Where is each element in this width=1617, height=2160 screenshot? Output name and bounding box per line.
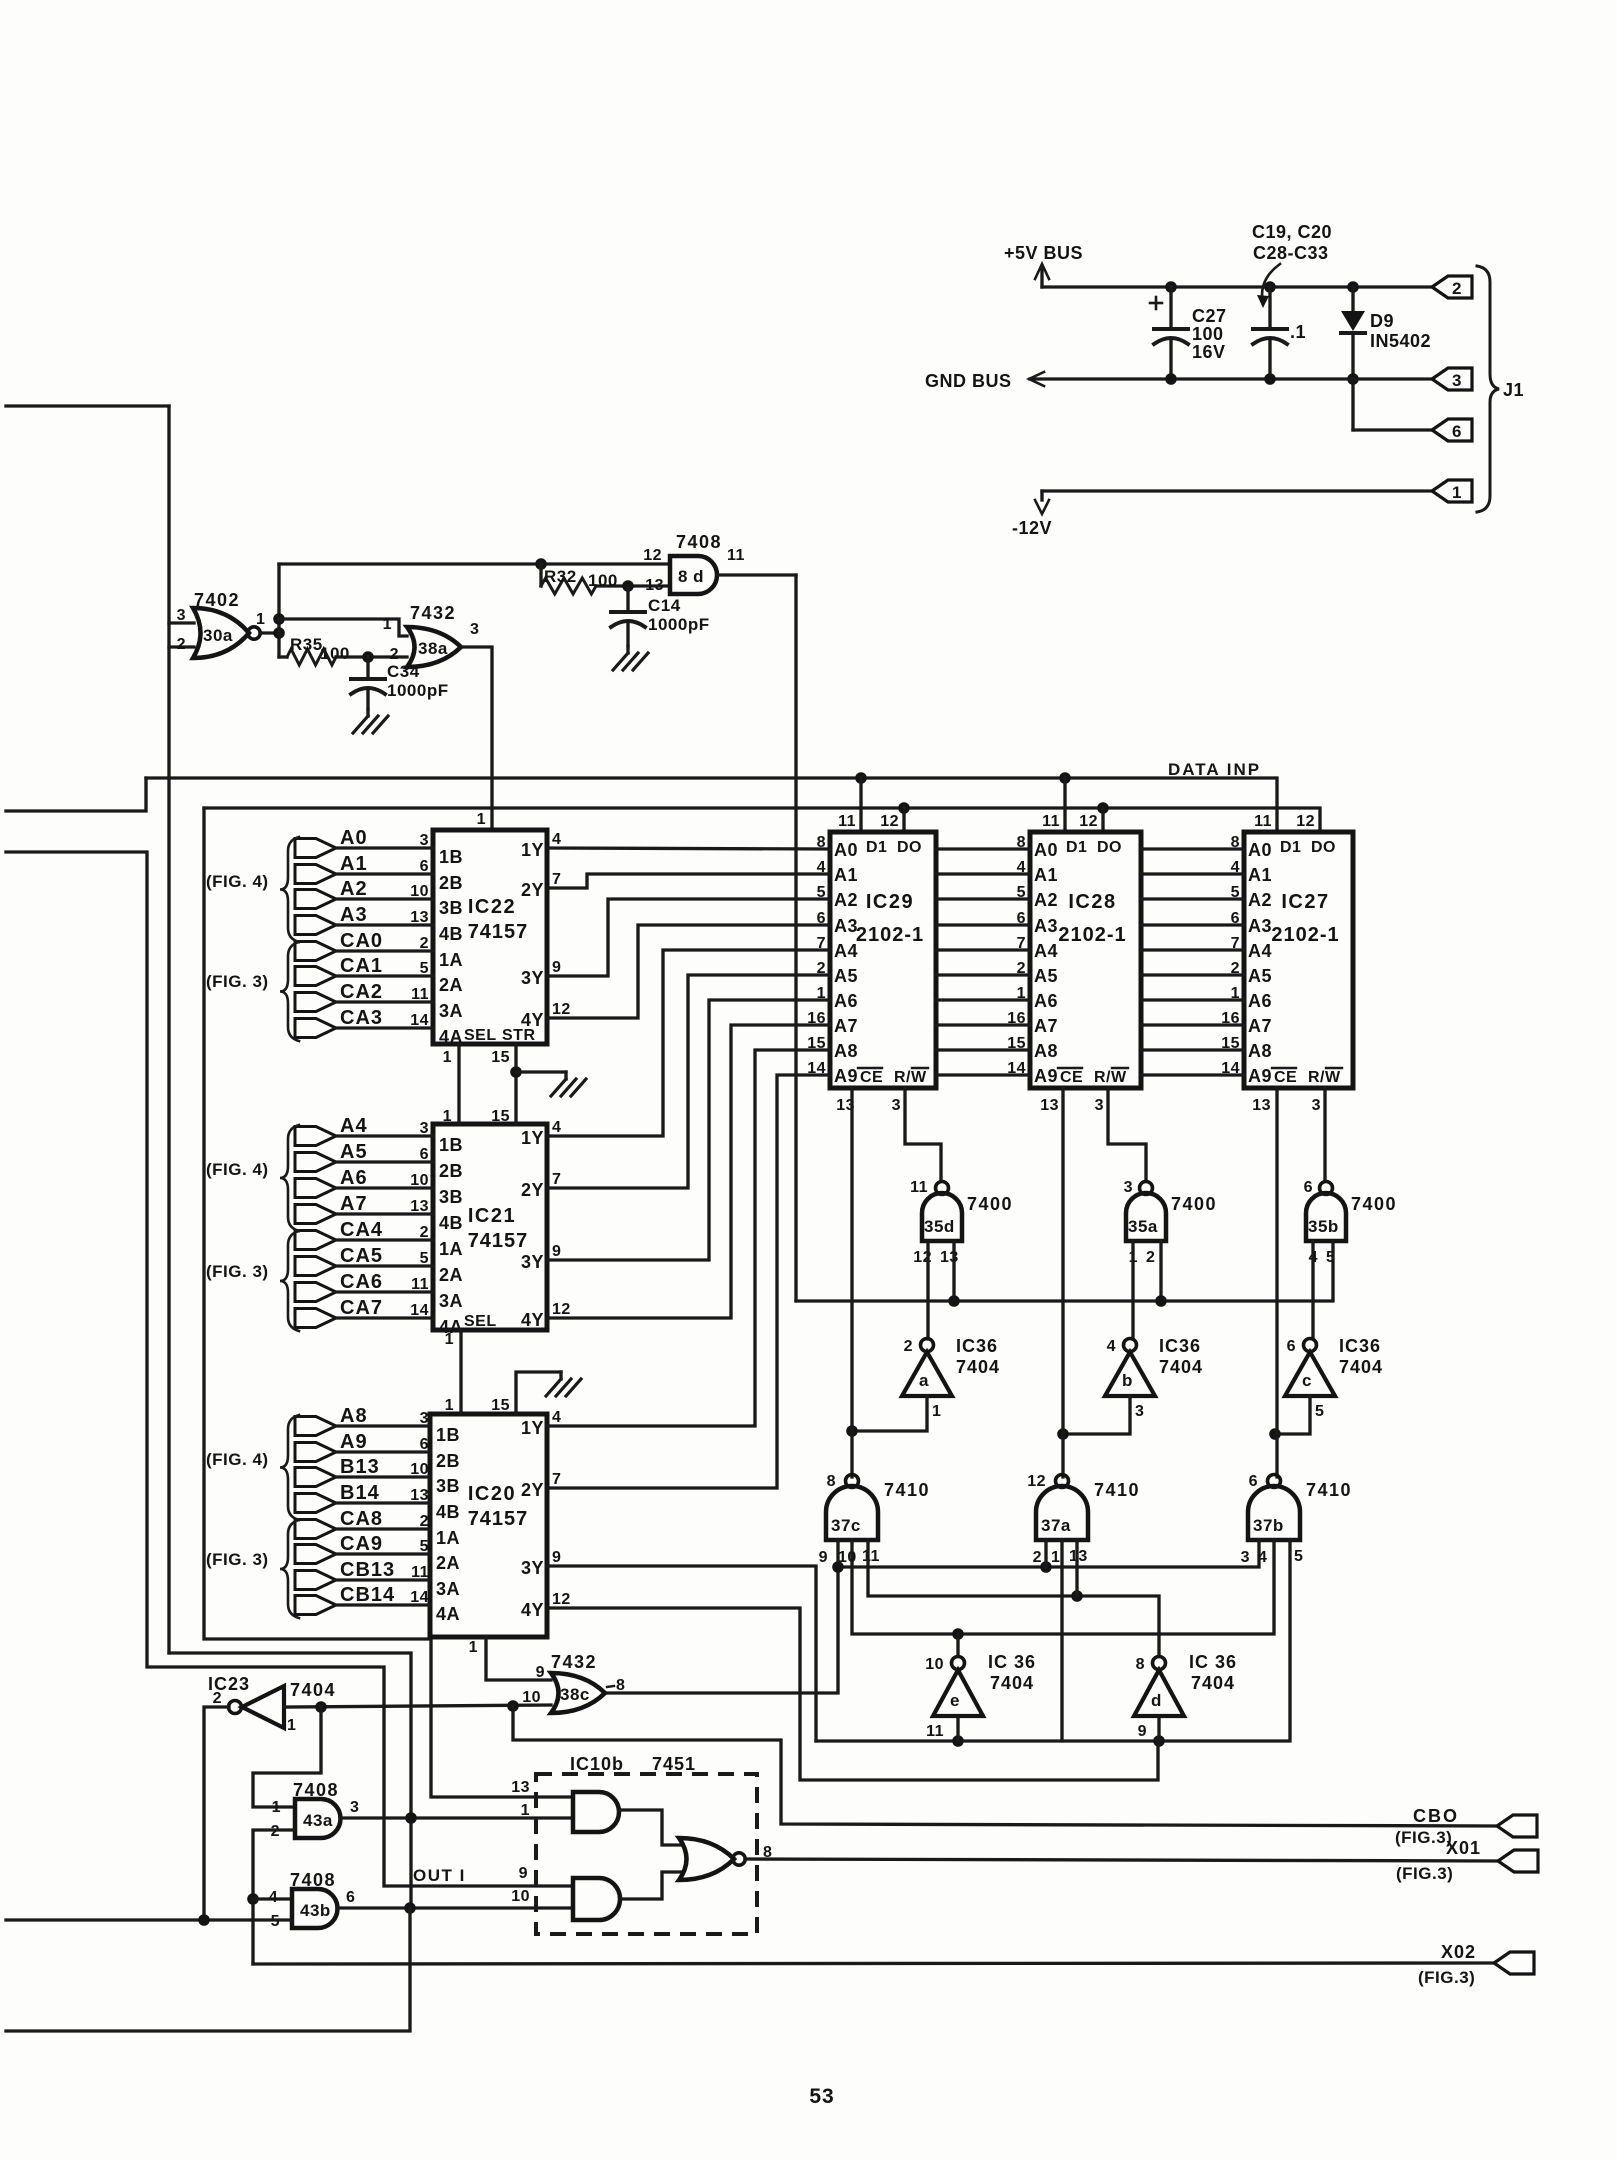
node a input / CE29: [846, 1425, 858, 1437]
svg-text:7: 7: [552, 1471, 561, 1488]
svg-text:13: 13: [1252, 1097, 1271, 1114]
wire input A2 to IC22.3B: [295, 890, 336, 909]
node e input: [952, 1735, 964, 1747]
svg-text:2Y: 2Y: [521, 880, 544, 900]
svg-text:A6: A6: [834, 991, 858, 1011]
gate 7400 35a: [1126, 1193, 1166, 1241]
svg-text:IC 36: IC 36: [1189, 1652, 1237, 1672]
svg-text:7408: 7408: [293, 1780, 339, 1800]
svg-text:C28-C33: C28-C33: [1253, 243, 1329, 263]
svg-text:A7: A7: [834, 1016, 858, 1036]
wire 43b output: [337, 1906, 573, 1909]
ground C34: [366, 709, 369, 716]
wire vertical x169 down to y1653: [167, 406, 170, 1653]
svg-text:12: 12: [643, 547, 662, 564]
gate 7408 43b: [292, 1889, 338, 1928]
svg-text:11: 11: [838, 813, 856, 830]
wire input A7 to IC21.4B: [295, 1205, 336, 1224]
wire +5V bus: [1042, 285, 1432, 288]
inverter IC36 b 7404: [1105, 1352, 1155, 1396]
svg-text:A5: A5: [1248, 966, 1272, 986]
svg-text:CA0: CA0: [340, 930, 383, 952]
node 43b.4: [247, 1893, 259, 1905]
wire 7402 input 3 stub: [169, 621, 194, 624]
op 7432 OR gate 38a: [407, 627, 461, 667]
svg-text:.1: .1: [1290, 322, 1306, 342]
svg-text:6: 6: [420, 858, 429, 875]
svg-text:e: e: [950, 1691, 960, 1710]
svg-text:53: 53: [809, 2085, 834, 2108]
wire IC20.4Y line to L4: [547, 1608, 1158, 1780]
svg-text:30a: 30a: [203, 626, 233, 645]
node C14 tap: [622, 580, 634, 592]
node e output: [952, 1628, 964, 1640]
ground IC22 STR: [516, 1070, 566, 1073]
wire IC28 CE to 37a out: [1061, 1088, 1064, 1477]
svg-text:IC36: IC36: [1159, 1336, 1201, 1356]
wire 37a.1 stub long: [1060, 1540, 1063, 1741]
svg-text:CA4: CA4: [340, 1219, 383, 1241]
svg-text:3Y: 3Y: [521, 1558, 544, 1578]
svg-text:12: 12: [880, 813, 899, 830]
gate 7410 37a: [1036, 1486, 1088, 1540]
svg-text:CBO: CBO: [1413, 1806, 1459, 1826]
svg-text:1: 1: [443, 1108, 452, 1125]
svg-text:2: 2: [213, 1690, 222, 1707]
svg-text:7410: 7410: [1094, 1480, 1140, 1500]
wire 35d.12 to inverter a out: [926, 1241, 929, 1339]
wire e output stub: [956, 1634, 959, 1656]
svg-text:A6: A6: [1034, 991, 1058, 1011]
svg-text:R35: R35: [290, 635, 323, 654]
svg-text:12: 12: [552, 1301, 571, 1318]
svg-text:4: 4: [552, 1409, 561, 1426]
svg-text:2102-1: 2102-1: [1271, 924, 1339, 946]
inverter IC36 a 7404: [902, 1352, 952, 1396]
wire IC21 SEL to IC20 pin1: [459, 1330, 462, 1414]
svg-text:A4: A4: [1248, 941, 1272, 961]
RAM IC28 2102-1: [1030, 832, 1141, 1088]
connector J1 pin 3: [1432, 368, 1472, 390]
wire to 38a input 1: [279, 619, 407, 636]
svg-text:11: 11: [926, 1723, 944, 1740]
wire input A6 to IC21.3B: [295, 1179, 336, 1198]
svg-text:DO: DO: [897, 839, 922, 856]
svg-text:2A: 2A: [436, 1553, 460, 1573]
node DO IC28: [1097, 802, 1109, 814]
svg-text:100: 100: [320, 644, 350, 663]
node GND/C19: [1264, 373, 1276, 385]
wire input CA4 to IC21.1A: [295, 1231, 336, 1250]
brace FIG.4 IC20: [280, 1415, 299, 1520]
svg-text:6: 6: [1287, 1338, 1296, 1355]
svg-text:C27: C27: [1192, 306, 1227, 326]
svg-text:A4: A4: [834, 941, 858, 961]
svg-text:(FIG. 4): (FIG. 4): [206, 1160, 269, 1179]
connector J1 pin 6: [1432, 419, 1472, 441]
svg-text:X01: X01: [1446, 1838, 1481, 1858]
capacitor C14 1000pF: [626, 586, 629, 612]
svg-text:5: 5: [1315, 1403, 1324, 1420]
svg-text:D9: D9: [1370, 311, 1394, 331]
wire IC22.2Y riser to RAM row: [547, 874, 830, 888]
svg-text:A9: A9: [1034, 1066, 1058, 1086]
svg-text:CA5: CA5: [340, 1245, 383, 1267]
svg-text:2B: 2B: [439, 873, 463, 893]
svg-text:9: 9: [552, 959, 561, 976]
svg-text:14: 14: [410, 1012, 429, 1029]
resistor R35 100: [279, 655, 287, 658]
op 7408 AND gate 8d: [670, 556, 717, 594]
node IC23a out join: [198, 1914, 210, 1926]
svg-text:37a: 37a: [1041, 1516, 1071, 1535]
wire AND2 out to NOR: [621, 1872, 683, 1899]
svg-text:9: 9: [536, 1664, 545, 1681]
inverter IC36 c 7404: [1285, 1352, 1335, 1396]
node 43b out: [404, 1902, 416, 1914]
inverter IC36 d 7404: [1134, 1670, 1184, 1716]
wire X01 line: [745, 1859, 1498, 1861]
svg-text:5: 5: [420, 1538, 429, 1555]
svg-text:14: 14: [410, 1302, 429, 1319]
arrow +5V up: [1035, 264, 1049, 279]
svg-text:100: 100: [588, 571, 618, 590]
wire e input stub: [956, 1716, 959, 1741]
svg-text:10: 10: [410, 1461, 429, 1478]
wire J1-6 to D9: [1353, 428, 1432, 431]
svg-text:A5: A5: [834, 966, 858, 986]
wire 35d.13 stub: [952, 1241, 955, 1301]
svg-text:1: 1: [445, 1397, 454, 1414]
svg-text:3: 3: [1452, 371, 1462, 390]
svg-text:DO: DO: [1097, 839, 1122, 856]
svg-text:2: 2: [1452, 279, 1462, 298]
wire input A8 to IC20.1B: [295, 1417, 336, 1436]
svg-text:1000pF: 1000pF: [648, 615, 710, 634]
RAM IC27 2102-1: [1244, 832, 1353, 1088]
svg-text:A1: A1: [1248, 865, 1272, 885]
wire 38a output to IC22 pin1: [461, 647, 492, 830]
svg-text:1: 1: [383, 616, 392, 633]
svg-text:37b: 37b: [1253, 1516, 1284, 1535]
svg-text:R/W: R/W: [894, 1069, 927, 1086]
svg-text:(FIG. 4): (FIG. 4): [206, 1450, 269, 1469]
mux IC22 74157: [433, 830, 547, 1044]
svg-text:a: a: [919, 1371, 929, 1390]
svg-text:38a: 38a: [418, 639, 448, 658]
gate AND IC10b lower: [573, 1878, 620, 1920]
svg-text:11: 11: [411, 986, 429, 1003]
svg-text:+5V BUS: +5V BUS: [1004, 243, 1083, 263]
svg-text:9: 9: [519, 1865, 528, 1882]
svg-text:1A: 1A: [439, 950, 463, 970]
svg-text:13: 13: [940, 1249, 959, 1266]
svg-text:11: 11: [411, 1276, 429, 1293]
svg-text:5: 5: [1294, 1548, 1303, 1565]
gate 7410 37c: [826, 1486, 878, 1540]
node d input: [1153, 1735, 1165, 1747]
wire 43b out down to page left: [6, 1908, 410, 2031]
svg-text:R/W: R/W: [1094, 1069, 1127, 1086]
svg-text:A6: A6: [340, 1167, 368, 1189]
wire input CA1 to IC22.2A: [295, 967, 336, 986]
wire AND1 out to NOR: [619, 1810, 683, 1845]
wire IC22 STR to IC21 pin15: [514, 1044, 517, 1124]
svg-text:13: 13: [410, 1487, 429, 1504]
svg-text:(FIG. 4): (FIG. 4): [206, 872, 269, 891]
svg-text:2102-1: 2102-1: [1058, 924, 1126, 946]
svg-text:3: 3: [420, 832, 429, 849]
mux IC20 74157: [430, 1414, 547, 1637]
svg-text:IC20: IC20: [468, 1483, 516, 1505]
svg-text:B14: B14: [340, 1482, 380, 1504]
connector J1 pin 1: [1432, 480, 1472, 502]
svg-text:IN5402: IN5402: [1370, 331, 1431, 351]
svg-text:2: 2: [420, 1224, 429, 1241]
svg-text:3A: 3A: [436, 1579, 460, 1599]
svg-text:6: 6: [420, 1436, 429, 1453]
svg-text:1: 1: [932, 1403, 941, 1420]
svg-text:1B: 1B: [439, 1135, 463, 1155]
svg-text:7404: 7404: [990, 1673, 1034, 1693]
svg-text:A3: A3: [1034, 916, 1058, 936]
wire top-left input: [6, 404, 169, 407]
svg-text:A0: A0: [340, 827, 368, 849]
svg-text:d: d: [1151, 1691, 1162, 1710]
svg-text:DO: DO: [1311, 839, 1336, 856]
svg-text:A0: A0: [1034, 840, 1058, 860]
svg-text:13: 13: [410, 909, 429, 926]
svg-text:1: 1: [521, 1802, 530, 1819]
svg-text:IC21: IC21: [468, 1205, 516, 1227]
svg-text:A3: A3: [1248, 916, 1272, 936]
svg-text:1: 1: [287, 1717, 296, 1734]
node STR ground tap: [510, 1066, 522, 1078]
wire input B13 to IC20.3B: [295, 1468, 336, 1487]
svg-text:A5: A5: [340, 1141, 368, 1163]
svg-text:(FIG. 3): (FIG. 3): [206, 1550, 269, 1569]
svg-text:38c: 38c: [560, 1685, 590, 1704]
svg-text:R32: R32: [544, 567, 577, 586]
wire IC22.4Y riser to RAM row: [547, 925, 830, 1018]
svg-text:1: 1: [445, 1331, 454, 1348]
wire left edge loop y852: [6, 852, 573, 1886]
wire IC28 pin11 stub: [1063, 778, 1066, 832]
wire 8d output vertical x796: [794, 575, 797, 1301]
brace FIG.4 IC22: [280, 837, 299, 942]
svg-text:X02: X02: [1441, 1942, 1476, 1962]
wire IC23a output to 43b.5 line: [204, 1707, 229, 1920]
wire IC22.1Y to RAM A0 row: [547, 848, 830, 849]
diode D9 1N5402: [1351, 287, 1354, 311]
resistor R32 100: [539, 564, 542, 586]
wire IC20 pin1 to 38c.9: [486, 1637, 551, 1680]
svg-text:A0: A0: [1248, 840, 1272, 860]
svg-text:3: 3: [420, 1120, 429, 1137]
svg-text:IC 36: IC 36: [988, 1652, 1036, 1672]
svg-text:C14: C14: [648, 596, 681, 615]
svg-text:A0: A0: [834, 840, 858, 860]
svg-text:8: 8: [1136, 1656, 1145, 1673]
gate 7408 43a: [295, 1799, 341, 1838]
svg-text:13: 13: [410, 1198, 429, 1215]
svg-text:7410: 7410: [1306, 1480, 1352, 1500]
node C34 tap: [362, 651, 374, 663]
svg-text:7404: 7404: [1191, 1673, 1235, 1693]
wire net 38c.8/37c.9/37a.2/37b.3: [607, 1540, 838, 1693]
svg-text:4B: 4B: [436, 1502, 460, 1522]
svg-text:4Y: 4Y: [521, 1310, 544, 1330]
svg-text:1Y: 1Y: [521, 1418, 544, 1438]
brace FIG.3 IC20: [280, 1520, 299, 1618]
svg-text:1B: 1B: [436, 1425, 460, 1445]
wire input A9 to IC20.2B: [295, 1443, 336, 1462]
wire input CA8 to IC20.1A: [295, 1520, 336, 1539]
svg-text:2: 2: [1146, 1249, 1155, 1266]
wire input CA7 to IC21.4A: [295, 1309, 336, 1328]
svg-text:(FIG.3): (FIG.3): [1395, 1828, 1452, 1847]
svg-text:3: 3: [420, 1410, 429, 1427]
svg-text:74157: 74157: [468, 921, 529, 943]
node 37c.9: [832, 1561, 844, 1573]
svg-text:IC27: IC27: [1281, 891, 1329, 913]
wire DATA INP bus: [146, 778, 1277, 832]
wire IC20 pin15 ground arm: [516, 1372, 561, 1414]
svg-text:IC10b: IC10b: [570, 1754, 624, 1774]
svg-text:74157: 74157: [468, 1230, 529, 1252]
svg-text:(FIG. 3): (FIG. 3): [206, 972, 269, 991]
svg-text:IC29: IC29: [866, 891, 914, 913]
svg-text:A9: A9: [340, 1431, 368, 1453]
svg-text:7404: 7404: [1159, 1357, 1203, 1377]
wire 43b input 4 stub: [253, 1897, 292, 1900]
svg-text:6: 6: [1304, 1179, 1313, 1196]
svg-text:-12V: -12V: [1012, 518, 1052, 538]
svg-text:A2: A2: [1034, 890, 1058, 910]
svg-text:74157: 74157: [468, 1508, 529, 1530]
svg-text:1000pF: 1000pF: [387, 681, 449, 700]
wire input CB13 to IC20.3A: [295, 1571, 336, 1590]
svg-text:12: 12: [1079, 813, 1098, 830]
svg-text:A3: A3: [834, 916, 858, 936]
svg-text:D1: D1: [1066, 839, 1087, 856]
RAM IC29 2102-1: [830, 832, 936, 1088]
wire IC28 R/W to 35a: [1108, 1088, 1146, 1181]
svg-text:4B: 4B: [439, 924, 463, 944]
gate 7400 35b: [1306, 1193, 1346, 1241]
wire IC29 pin11 stub: [859, 778, 862, 832]
node 38a in1 branch: [273, 613, 285, 625]
node +5V/D9: [1347, 281, 1359, 293]
svg-text:OUT I: OUT I: [413, 1866, 466, 1885]
svg-text:A1: A1: [340, 853, 368, 875]
inverter IC23 a 7404: [242, 1686, 284, 1728]
svg-text:7404: 7404: [1339, 1357, 1383, 1377]
wire input CA9 to IC20.2A: [295, 1545, 336, 1564]
svg-text:7432: 7432: [551, 1652, 597, 1672]
svg-text:A3: A3: [340, 904, 368, 926]
svg-text:1A: 1A: [436, 1528, 460, 1548]
svg-text:13: 13: [645, 577, 664, 594]
svg-text:12: 12: [1296, 813, 1315, 830]
wire vertical x279: [277, 564, 280, 657]
wire IC20.2Y riser to RAM row: [547, 1075, 830, 1488]
svg-text:2A: 2A: [439, 1265, 463, 1285]
svg-text:CA3: CA3: [340, 1007, 383, 1029]
svg-text:3: 3: [470, 621, 479, 638]
svg-text:1: 1: [272, 1799, 281, 1816]
svg-text:IC28: IC28: [1068, 891, 1116, 913]
node DATA INP IC28: [1059, 772, 1071, 784]
wire IC23a input line to 38c.10: [284, 1705, 551, 1707]
wire L4 net CE-row y1741: [816, 1540, 1290, 1741]
svg-text:2Y: 2Y: [521, 1180, 544, 1200]
svg-text:4A: 4A: [436, 1604, 460, 1624]
node R32 tap: [535, 558, 547, 570]
svg-text:5: 5: [420, 1250, 429, 1267]
wire 43a output: [340, 1816, 573, 1819]
ground IC20 pin15: [559, 1372, 562, 1379]
svg-text:43b: 43b: [300, 1901, 331, 1920]
svg-text:A2: A2: [1248, 890, 1272, 910]
svg-text:A4: A4: [340, 1115, 368, 1137]
wire IC27 CE to 37b out: [1275, 1088, 1278, 1477]
svg-text:1: 1: [469, 1639, 478, 1656]
svg-text:A8: A8: [340, 1405, 368, 1427]
svg-text:1: 1: [1452, 483, 1462, 502]
svg-text:A8: A8: [1248, 1041, 1272, 1061]
node DATA INP IC29: [855, 772, 867, 784]
svg-text:8: 8: [827, 1473, 836, 1490]
arrow GND left: [1029, 372, 1044, 386]
svg-text:7408: 7408: [290, 1870, 336, 1890]
wire input CA0 to IC22.1A: [295, 942, 336, 961]
wire input A4 to IC21.1B: [295, 1127, 336, 1146]
wire inverter a input: [852, 1396, 927, 1431]
brace FIG.3 IC21: [280, 1231, 299, 1331]
node 30a out: [273, 627, 285, 639]
svg-text:CE: CE: [860, 1069, 883, 1086]
svg-text:12: 12: [1027, 1473, 1046, 1490]
svg-text:D1: D1: [866, 839, 887, 856]
wire IC20.1Y riser to RAM row: [547, 1050, 830, 1426]
wire d input stub: [1157, 1716, 1160, 1741]
svg-text:11: 11: [1254, 813, 1272, 830]
wire DO bus: [204, 808, 1320, 832]
svg-text:CA6: CA6: [340, 1271, 383, 1293]
wire inverter c input: [1275, 1396, 1310, 1434]
svg-text:A7: A7: [340, 1193, 368, 1215]
svg-text:3: 3: [1095, 1097, 1104, 1114]
svg-text:3: 3: [1135, 1403, 1144, 1420]
wire input A0 to IC22.1B: [295, 839, 336, 858]
svg-text:7: 7: [552, 1171, 561, 1188]
svg-text:4: 4: [552, 831, 561, 848]
svg-text:3B: 3B: [439, 1187, 463, 1207]
node 37a.13: [1071, 1590, 1083, 1602]
svg-text:A1: A1: [1034, 865, 1058, 885]
node CB0 branch: [507, 1700, 519, 1712]
node 43a.1 branch: [315, 1701, 327, 1713]
wire 7402 input 2 stub: [169, 645, 194, 648]
svg-text:A4: A4: [1034, 941, 1058, 961]
svg-text:3: 3: [1241, 1549, 1250, 1566]
svg-text:4: 4: [552, 1119, 561, 1136]
gate 7400 35d: [922, 1193, 962, 1241]
wire GND bus: [1030, 377, 1432, 380]
svg-text:CA7: CA7: [340, 1297, 383, 1319]
svg-text:CE: CE: [1060, 1069, 1083, 1086]
